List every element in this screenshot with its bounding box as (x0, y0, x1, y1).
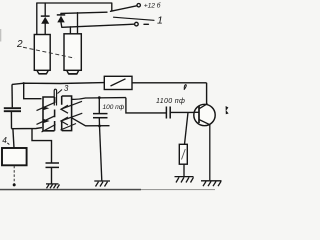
svg-text:3: 3 (64, 84, 69, 93)
svg-text:100 пф: 100 пф (103, 104, 125, 111)
svg-text:1: 1 (157, 14, 163, 26)
svg-text:4: 4 (2, 135, 7, 145)
svg-text:+12 б: +12 б (144, 2, 162, 10)
svg-text:2: 2 (16, 39, 23, 50)
svg-text:1100 пф: 1100 пф (156, 98, 185, 105)
